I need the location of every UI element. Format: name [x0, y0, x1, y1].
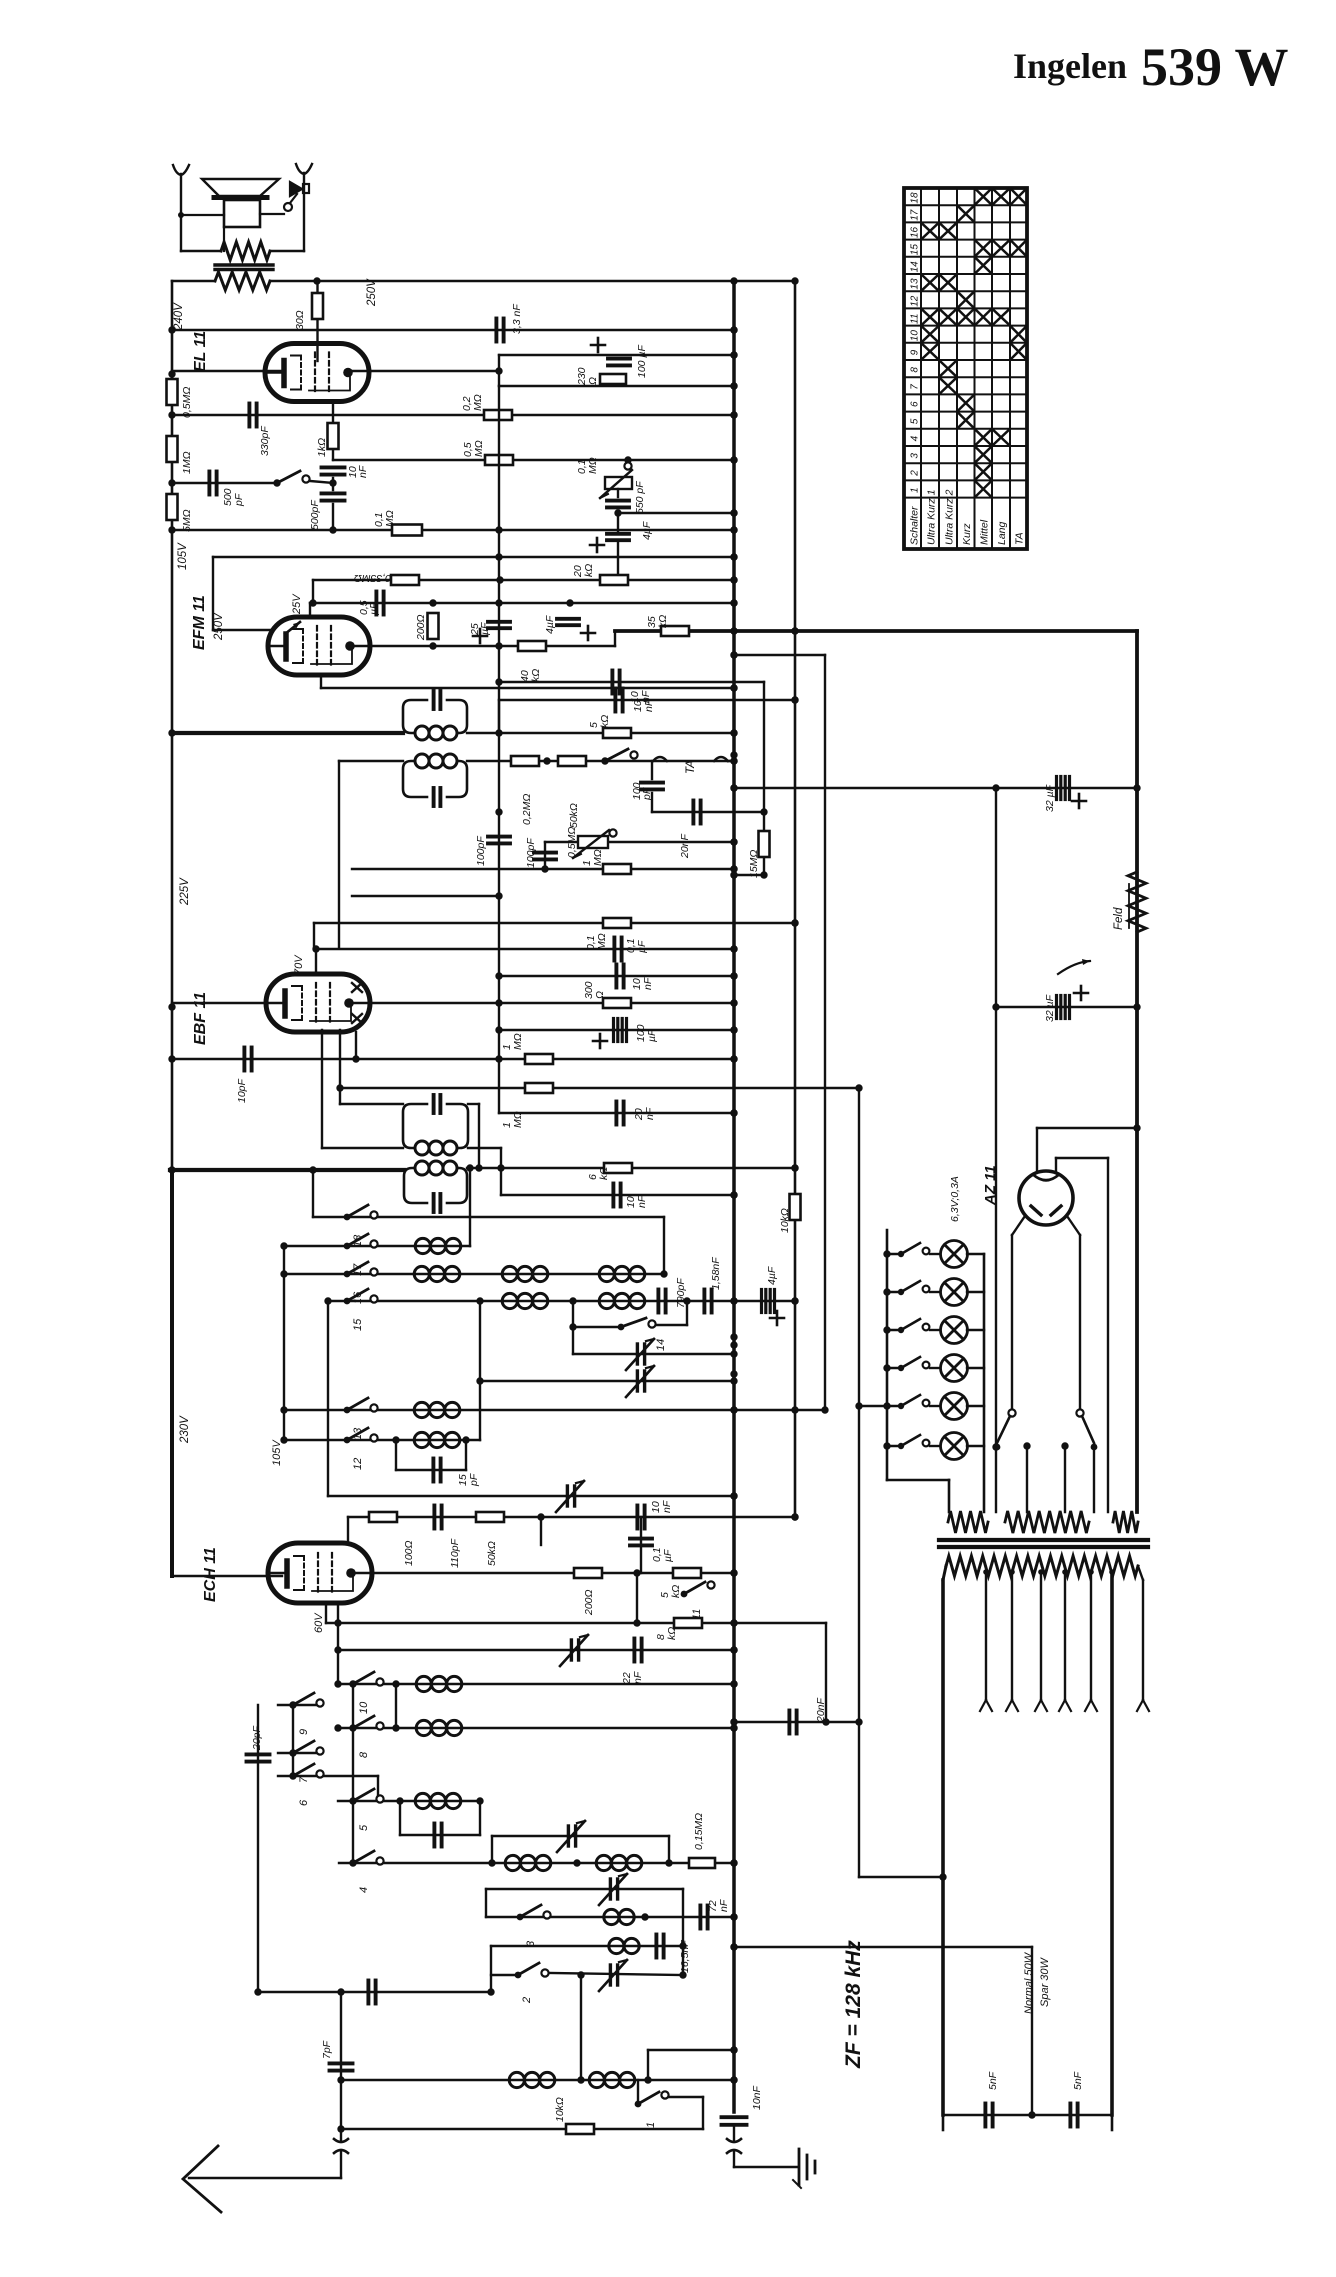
- junction lamp row: [883, 1288, 890, 1295]
- junction: [760, 871, 767, 878]
- junction: [495, 972, 502, 979]
- capacitor 32 uF a: [1057, 777, 1070, 800]
- junction: [791, 1513, 798, 1520]
- wire switch line: [172, 482, 277, 484]
- junction bus: [730, 1943, 737, 1950]
- wire: [930, 1367, 941, 1369]
- plus 32uF a: [1072, 794, 1086, 808]
- junction: [730, 326, 737, 333]
- resistor 100 Ohm: [369, 1512, 397, 1522]
- capacitor 790 pF: [658, 1290, 665, 1313]
- output transformer secondary winding: [221, 242, 270, 260]
- capacitor 5 nF b: [1070, 2104, 1077, 2127]
- junction: [497, 1164, 504, 1171]
- wire: [1056, 1157, 1108, 1159]
- svg-text:13: 13: [910, 278, 921, 290]
- svg-text:MΩ: MΩ: [384, 510, 396, 527]
- junction bus: [730, 509, 737, 516]
- svg-text:TA: TA: [685, 760, 697, 774]
- switch 14: [618, 1318, 656, 1330]
- junction: [730, 1055, 737, 1062]
- wire: [340, 2152, 342, 2178]
- junction: [352, 1055, 359, 1062]
- svg-text:nF: nF: [642, 977, 654, 990]
- junction: [730, 382, 737, 389]
- wire: [312, 580, 314, 603]
- svg-text:100 µF: 100 µF: [636, 345, 648, 378]
- transformer primary winding: [946, 1556, 1138, 1576]
- coil row1 a: [509, 2072, 555, 2087]
- resistor Feld field coil: [1128, 872, 1146, 932]
- svg-text:2: 2: [910, 470, 921, 477]
- tap fork: [1006, 1700, 1018, 1711]
- wire line 1113: [499, 1112, 734, 1114]
- Feld underline: [1128, 884, 1130, 928]
- resistor 0.1 MOhm b: [603, 918, 631, 928]
- junction: [168, 1003, 175, 1010]
- wire px480: [479, 1301, 481, 1440]
- junction: [1009, 1569, 1015, 1575]
- wire: [396, 1469, 466, 1471]
- wire: [1031, 1947, 1033, 2115]
- wire Feld supply line: [615, 629, 1137, 633]
- svg-text:MΩ: MΩ: [473, 440, 485, 457]
- junction bus b: [791, 277, 798, 284]
- junction: [983, 1569, 989, 1575]
- junction: [730, 838, 737, 845]
- wire line 733: [467, 732, 734, 734]
- junction: [730, 684, 737, 691]
- junction: [495, 526, 502, 533]
- speaker wire b: [223, 227, 225, 251]
- junction: [822, 1718, 829, 1725]
- junction: [660, 1270, 667, 1277]
- wire row 17: [284, 1245, 470, 1247]
- junction: [730, 945, 737, 952]
- TA jack a: [653, 757, 728, 761]
- junction: [168, 411, 175, 418]
- junction: [329, 526, 336, 533]
- capacitor 10 nF d: [613, 1184, 620, 1207]
- svg-text:nF: nF: [661, 1500, 673, 1513]
- wire line 788: [734, 787, 1137, 789]
- wire transformer tap: [1090, 1572, 1092, 1700]
- junction: [334, 1646, 341, 1653]
- svg-text:MΩ: MΩ: [596, 933, 608, 950]
- wire filament a: [1037, 1127, 1137, 1129]
- junction: [730, 729, 737, 736]
- junction: [495, 1055, 502, 1062]
- wire transformer tap: [1011, 1572, 1013, 1700]
- capacitor 1.58 nF: [704, 1290, 711, 1313]
- capacitor 100 pF c: [641, 783, 663, 790]
- svg-text:Ultra Kurz 2: Ultra Kurz 2: [944, 489, 956, 545]
- IF4 capacitor: [434, 1194, 441, 1212]
- wire right rail px1137: [1135, 631, 1139, 1512]
- wire: [637, 2080, 639, 2104]
- junction: [601, 757, 608, 764]
- svg-text:100pF: 100pF: [525, 838, 537, 868]
- wire: [967, 1405, 984, 1407]
- junction: [1088, 1569, 1094, 1575]
- wire EFM anode line: [352, 645, 615, 647]
- resistor 5 kOhm: [603, 728, 631, 738]
- switch 13: [344, 1398, 378, 1413]
- ground symbol: [793, 2149, 815, 2188]
- junction: [730, 1724, 737, 1731]
- svg-text:8: 8: [910, 367, 921, 373]
- svg-text:MΩ: MΩ: [592, 849, 604, 866]
- wire row 4: [339, 1862, 734, 1864]
- junction lamp row: [883, 1250, 890, 1257]
- junction: [730, 1026, 737, 1033]
- wire: [332, 478, 334, 490]
- wire: [465, 1440, 467, 1470]
- junction: [791, 919, 798, 926]
- wire: [887, 1367, 901, 1369]
- svg-text:110pF: 110pF: [449, 1538, 461, 1568]
- wire line 1623: [326, 1622, 826, 1624]
- junction bus: [730, 784, 737, 791]
- wire: [887, 1253, 901, 1255]
- IF1 capacitor: [434, 691, 441, 709]
- capacitor 7 pF: [330, 2063, 353, 2070]
- wire: [647, 2050, 649, 2080]
- junction: [730, 553, 737, 560]
- junction: [730, 1191, 737, 1198]
- resistor 6 kOhm: [604, 1163, 632, 1173]
- junction: [254, 1988, 261, 1995]
- junction: [495, 808, 502, 815]
- svg-text:kΩ: kΩ: [666, 1627, 678, 1640]
- wire main bus px734: [732, 281, 736, 2112]
- wire: [478, 1104, 480, 1168]
- junction: [577, 1971, 584, 1978]
- svg-text:kΩ: kΩ: [670, 1585, 682, 1598]
- junction: [495, 553, 502, 560]
- wire: [491, 1836, 493, 1863]
- junction: [730, 576, 737, 583]
- wire px258 antenna col: [257, 1705, 259, 1992]
- capacitor 20 nF b: [616, 1102, 623, 1125]
- junction bus: [730, 576, 737, 583]
- capacitor 25 uF: [488, 622, 510, 628]
- svg-text:9: 9: [910, 349, 921, 355]
- switch 17: [344, 1234, 378, 1249]
- svg-text:10pF: 10pF: [236, 1078, 248, 1103]
- wire row 12: [284, 1439, 480, 1441]
- trimmer cap b: [626, 1366, 654, 1397]
- wire row 1: [341, 2079, 734, 2081]
- resistor 15 MOhm: [759, 831, 770, 857]
- tap fork: [1085, 1700, 1097, 1711]
- tube EFM11 envelope: [268, 617, 370, 675]
- wire: [948, 1480, 951, 1512]
- junction: [855, 1718, 862, 1725]
- junction bus: [730, 1913, 737, 1920]
- junction: [280, 1406, 287, 1413]
- wire transformer tap: [1064, 1572, 1066, 1700]
- potentiometer 0.5 MOhm: [573, 829, 617, 858]
- junction: [624, 456, 631, 463]
- junction bus: [730, 729, 737, 736]
- plus 4uF row15: [770, 1311, 784, 1325]
- switch 7: [290, 1741, 324, 1756]
- svg-text:nF: nF: [644, 1107, 656, 1120]
- wire: [468, 1103, 479, 1105]
- junction: [1109, 1569, 1115, 1575]
- wire: [212, 557, 214, 630]
- wire: [967, 1445, 984, 1447]
- lamp 5: [941, 1393, 968, 1420]
- junction: [324, 1297, 331, 1304]
- capacitor 20 nF c: [789, 1711, 796, 1734]
- svg-text:12: 12: [352, 1458, 364, 1470]
- switch 15: [344, 1289, 378, 1304]
- speaker driver: [284, 182, 309, 211]
- capacitor 100 pF a: [488, 837, 510, 844]
- svg-text:4µF: 4µF: [641, 521, 653, 540]
- junction: [821, 1406, 828, 1413]
- junction: [334, 1724, 341, 1731]
- junction bus: [730, 2046, 737, 2053]
- wire left rail V1: [171, 281, 174, 733]
- wire: [1079, 1235, 1081, 1409]
- junction: [495, 999, 502, 1006]
- coil row16 c: [599, 1266, 645, 1281]
- output transformer primary winding: [215, 272, 270, 290]
- junction lamp row: [883, 1326, 890, 1333]
- junction bus: [730, 1718, 737, 1725]
- wire EBF grid lead: [315, 949, 317, 976]
- EFM11 eye arrow: [285, 622, 300, 634]
- switch 18: [344, 1205, 378, 1220]
- svg-text:kΩ: kΩ: [598, 1167, 610, 1180]
- svg-text:1kΩ: 1kΩ: [316, 438, 328, 457]
- junction bus: [730, 1859, 737, 1866]
- wire: [734, 874, 764, 876]
- resistor 20 kOhm: [600, 575, 628, 585]
- wire row 10: [338, 1683, 734, 1685]
- wire line 812: [652, 811, 764, 813]
- junction: [730, 1680, 737, 1687]
- svg-text:1: 1: [645, 2122, 657, 2128]
- svg-text:1: 1: [910, 487, 921, 493]
- wire: [320, 675, 322, 688]
- speaker wire a: [181, 214, 224, 216]
- junction: [495, 892, 502, 899]
- junction: [633, 1619, 640, 1626]
- wire: [332, 504, 334, 530]
- svg-text:18: 18: [910, 192, 921, 204]
- wire: [967, 1367, 984, 1369]
- tube AZ11 envelope: [1019, 1171, 1073, 1225]
- svg-text:10kΩ: 10kΩ: [554, 2097, 566, 2122]
- wire row 2: [491, 1974, 518, 1976]
- coil row4 a: [505, 1855, 551, 1870]
- wire: [887, 1329, 901, 1331]
- wire line 761: [467, 760, 734, 762]
- junction: [336, 1084, 343, 1091]
- svg-text:240V: 240V: [173, 302, 185, 331]
- wire: [942, 2115, 945, 2130]
- junction: [791, 1406, 798, 1413]
- plus 4uF b: [581, 626, 595, 640]
- transformer core a: [939, 1538, 1148, 1542]
- wire row 13: [284, 1409, 825, 1411]
- svg-text:Schalter: Schalter: [909, 506, 921, 545]
- junction bus: [730, 1026, 737, 1033]
- junction bus: [730, 1646, 737, 1653]
- svg-text:550 pF: 550 pF: [634, 481, 646, 514]
- wire: [399, 1801, 401, 1835]
- junction lamp row: [883, 1402, 890, 1409]
- wire: [887, 1479, 949, 1482]
- wire: [1107, 1158, 1109, 1512]
- junction: [730, 526, 737, 533]
- junction bus: [730, 1341, 737, 1348]
- junction: [429, 642, 436, 649]
- junction: [1133, 784, 1140, 791]
- resistor 300 Ohm: [603, 998, 631, 1008]
- wire left rail V1 lower: [171, 733, 174, 1170]
- junction bus: [730, 1370, 737, 1377]
- junction: [475, 1164, 482, 1171]
- junction: [1028, 2111, 1035, 2118]
- capacitor 3.3 nF: [496, 319, 503, 342]
- capacitor 500 pF b: [322, 493, 345, 500]
- junction: [730, 2046, 737, 2053]
- svg-text:µF: µF: [646, 1029, 658, 1042]
- wire: [400, 1834, 480, 1836]
- junction: [730, 865, 737, 872]
- wire: [887, 1405, 901, 1407]
- resistor 230 Ohm: [600, 374, 626, 384]
- switch 12: [344, 1428, 378, 1443]
- wire bus px795: [794, 281, 797, 1517]
- coil row15 b: [599, 1293, 645, 1308]
- resistor 5 MOhm: [167, 494, 178, 520]
- junction bus b: [791, 919, 798, 926]
- svg-text:µF: µF: [368, 602, 380, 615]
- wire antenna column: [340, 1992, 342, 2140]
- junction bus: [730, 1569, 737, 1576]
- svg-text:539 W: 539 W: [1141, 37, 1289, 97]
- wire: [967, 1253, 984, 1255]
- junction bus b: [791, 1513, 798, 1520]
- svg-text:100pF: 100pF: [475, 836, 487, 866]
- svg-text:500pF: 500pF: [309, 500, 321, 530]
- junction: [392, 1724, 399, 1731]
- svg-text:ECH 11: ECH 11: [202, 1547, 219, 1602]
- wire px328: [327, 1301, 329, 1496]
- svg-text:Ultra Kurz 1: Ultra Kurz 1: [926, 490, 938, 545]
- svg-text:EL 11: EL 11: [192, 331, 209, 372]
- junction: [992, 1003, 999, 1010]
- IF2 coil: [415, 754, 457, 768]
- svg-text:15MΩ: 15MΩ: [748, 850, 760, 878]
- wire: [468, 1147, 501, 1149]
- wire line 330: [172, 329, 734, 331]
- resistor 0.35 MOhm: [391, 575, 419, 585]
- resistor 200 Ohm b: [574, 1568, 602, 1578]
- junction: [495, 642, 502, 649]
- junction bus: [730, 1724, 737, 1731]
- switch lamp 2: [898, 1281, 930, 1295]
- junction: [614, 509, 621, 516]
- wire transformer tap: [1040, 1572, 1042, 1700]
- IF3 capacitor: [434, 1095, 441, 1113]
- wire trim row a: [573, 1353, 734, 1355]
- wire row 6: [278, 1775, 378, 1777]
- junction: [1133, 1003, 1140, 1010]
- wire: [485, 1889, 487, 1917]
- coil row16 a: [414, 1266, 460, 1281]
- capacitor 110 pF: [434, 1506, 441, 1529]
- junction bus: [730, 2076, 737, 2083]
- junction bus: [730, 1492, 737, 1499]
- capacitor 100 uF b: [614, 1019, 627, 1042]
- junction: [730, 1377, 737, 1384]
- junction bus: [730, 326, 737, 333]
- capacitor 72 nF: [700, 1906, 707, 1929]
- svg-text:6: 6: [910, 401, 921, 407]
- trimmer cap osc: [560, 1635, 588, 1666]
- junction: [730, 1913, 737, 1920]
- wire: [339, 760, 403, 762]
- junction: [1023, 1442, 1030, 1449]
- wire line 415: [172, 414, 734, 416]
- trimmer cap c: [556, 1481, 584, 1512]
- lamp 3: [941, 1317, 968, 1344]
- wire line 530: [172, 529, 734, 531]
- svg-text:20pF: 20pF: [251, 1725, 263, 1751]
- wire px764: [763, 682, 765, 875]
- lamp 6: [941, 1433, 968, 1460]
- junction: [730, 627, 737, 634]
- svg-text:MΩ: MΩ: [472, 394, 484, 411]
- junction: [337, 2076, 344, 2083]
- junction: [679, 1942, 686, 1949]
- junction lamp row: [883, 1442, 890, 1449]
- svg-text:11: 11: [910, 314, 921, 324]
- transformer core b: [215, 268, 273, 271]
- IF transformer 4 can: [404, 1168, 467, 1203]
- svg-text:4µF: 4µF: [766, 1266, 778, 1285]
- wire: [310, 481, 333, 483]
- junction: [641, 1913, 648, 1920]
- wire line 655: [734, 654, 825, 656]
- wire row 16.5nF: [491, 1945, 683, 1947]
- junction bus: [730, 1055, 737, 1062]
- switch tone: [277, 471, 310, 483]
- wire top rail to right bus: [270, 280, 795, 283]
- wire: [498, 700, 500, 733]
- wire rows10-8 connector: [395, 1684, 397, 1728]
- wire: [1111, 2115, 1114, 2130]
- wire line 923: [314, 922, 795, 924]
- wire px826: [825, 1623, 827, 1722]
- wire AZ11 anode b: [1067, 1216, 1080, 1235]
- switch 8: [350, 1716, 384, 1731]
- capacitor 5 nF a: [985, 2104, 992, 2127]
- resistor 200 Ohm: [428, 613, 439, 639]
- svg-text:nF: nF: [640, 690, 652, 703]
- coil row16 b: [502, 1266, 548, 1281]
- capacitor 22 nF: [634, 1639, 641, 1662]
- svg-text:4: 4: [910, 435, 921, 441]
- wire filament b: [1055, 1158, 1057, 1172]
